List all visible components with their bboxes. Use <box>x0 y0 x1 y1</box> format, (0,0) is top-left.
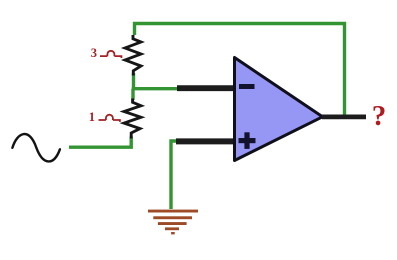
op-amp plus symbol <box>239 132 256 149</box>
resistor R1 <box>125 35 141 76</box>
wire junction to inverting input <box>132 87 178 90</box>
wire R1 bottom to junction node <box>132 73 135 89</box>
op-amp U1 body <box>235 58 323 161</box>
svg-text:1: 1 <box>89 110 95 124</box>
op-amp inverting input lead <box>177 85 234 91</box>
op-amp minus symbol <box>239 84 255 89</box>
label R1 value 3 ohm <box>91 46 97 60</box>
ground <box>148 210 198 235</box>
resistor R2 <box>124 99 141 139</box>
wire R2 bottom to source <box>69 137 131 148</box>
svg-text:3: 3 <box>91 46 97 60</box>
wire junction to R2 top <box>131 89 134 100</box>
wire ground to noninverting input <box>171 141 177 209</box>
label R2 omega symbol <box>99 115 120 122</box>
op-amp output lead <box>322 115 366 120</box>
op-amp noninverting input lead <box>176 138 234 144</box>
source sine wave <box>12 134 60 161</box>
svg-text:?: ? <box>372 100 387 132</box>
label R1 omega symbol <box>100 51 121 58</box>
wire feedback top: output to R1 top <box>135 24 345 116</box>
